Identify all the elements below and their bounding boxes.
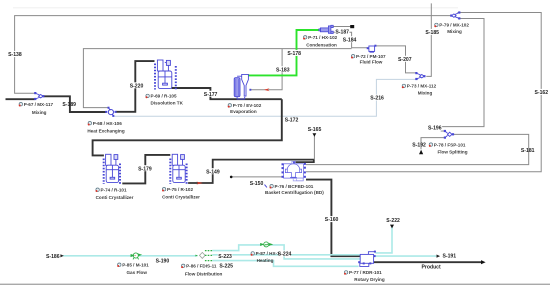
- crystallizer P-74 / R-101 icon: [104, 154, 120, 184]
- svg-text:Evaporation: Evaporation: [230, 109, 257, 114]
- wire S-196 P-79 bottom link: [441, 19, 484, 132]
- arrow S-191: [437, 255, 441, 258]
- label P-87 / HX-1: [251, 252, 254, 255]
- wire wash input: [313, 136, 315, 160]
- node S-149 label: [206, 168, 221, 174]
- svg-text:S-191: S-191: [443, 254, 457, 260]
- svg-text:P-71 / HX-102: P-71 / HX-102: [308, 35, 338, 40]
- arrow Product: [481, 260, 486, 264]
- label P-73 / MX-112: [402, 84, 405, 87]
- red arrow evaporator return: [264, 88, 270, 91]
- arrow S-187: [350, 25, 354, 28]
- svg-text:S-184: S-184: [343, 37, 357, 43]
- svg-text:S-183: S-183: [276, 67, 290, 73]
- svg-text:S-187: S-187: [335, 30, 349, 36]
- svg-text:Flow Splitting: Flow Splitting: [437, 149, 467, 154]
- wire S-138 top run: [15, 16, 451, 94]
- node S-220 label: [129, 82, 144, 88]
- wire S-181: [306, 134, 529, 164]
- wire lower cyan to dryer bottom: [212, 261, 358, 267]
- wire S-160: [306, 180, 361, 257]
- node S-223 label: [218, 253, 233, 259]
- label P-76 / BCFBD-101: [270, 185, 273, 188]
- svg-text:S-225: S-225: [219, 264, 233, 270]
- wire S-191 cyan: [375, 255, 436, 257]
- svg-text:Conti Crystallizer: Conti Crystallizer: [162, 194, 200, 199]
- label P-77 / RDR-101: [344, 271, 347, 274]
- svg-text:Gas Flow: Gas Flow: [126, 270, 147, 275]
- wire condensate return thin: [83, 49, 351, 108]
- node S-183 label: [276, 66, 291, 72]
- svg-text:S-220: S-220: [130, 83, 144, 89]
- wire S-179: [122, 155, 170, 184]
- label P-68 / HX-106: [88, 122, 91, 125]
- wire S-183 green: [248, 30, 319, 75]
- svg-text:P-78 / FSP-101: P-78 / FSP-101: [434, 142, 466, 147]
- wire S-187: [333, 26, 350, 28]
- node S-185 label: [425, 29, 440, 35]
- label P-86 / FDIS-11: [182, 264, 185, 267]
- svg-text:P-67 / MX-117: P-67 / MX-117: [24, 102, 54, 107]
- label P-75 / R-102: [162, 188, 165, 191]
- svg-text:S-172: S-172: [285, 118, 299, 124]
- svg-text:Basket Centrifugation (BD): Basket Centrifugation (BD): [265, 190, 324, 195]
- mixer P-73 MX-112 glyph: [416, 73, 424, 79]
- wire S-177: [172, 88, 282, 99]
- pump P-72 / PM-107 icon: [369, 46, 375, 52]
- svg-text:P-72 / PM-107: P-72 / PM-107: [356, 54, 386, 59]
- arrow S-192: [419, 150, 423, 155]
- svg-text:P-79 / MX-102: P-79 / MX-102: [439, 23, 469, 28]
- svg-text:P-69 / R-105: P-69 / R-105: [151, 94, 177, 99]
- svg-text:P-73 / MX-112: P-73 / MX-112: [407, 84, 437, 89]
- wire middle cyan to dryer: [212, 254, 359, 256]
- label P-85 / M-101: [118, 263, 121, 266]
- node S-184 label: [342, 36, 357, 42]
- svg-text:S-190: S-190: [156, 258, 170, 264]
- arrow into centrifuge top: [292, 161, 295, 164]
- label P-70 / EV-102: [228, 104, 231, 107]
- svg-text:P-86 / FDIS-11: P-86 / FDIS-11: [186, 264, 217, 269]
- svg-text:S-192: S-192: [412, 142, 426, 148]
- wire S-190 cyan: [139, 255, 198, 257]
- wire S-224 heater to dryer: [271, 245, 360, 259]
- bottom border strip: [0, 284, 550, 285]
- svg-text:S-222: S-222: [386, 218, 400, 224]
- wire S-216 light: [113, 79, 418, 116]
- svg-text:P-76 / BCFBD-101: P-76 / BCFBD-101: [275, 184, 314, 189]
- node S-196 label: [428, 125, 443, 131]
- node S-224 label: [278, 250, 291, 256]
- arrow wash input: [313, 133, 317, 137]
- wire S-172: [93, 99, 282, 155]
- svg-text:Fluid Flow: Fluid Flow: [360, 60, 383, 65]
- wire S-189: [43, 96, 106, 112]
- label P-74 / R-101: [96, 188, 99, 191]
- node S-162 label: [534, 89, 549, 95]
- label P-67 / MX-117: [19, 103, 22, 106]
- wire S-207: [376, 46, 418, 73]
- node S-207 label: [398, 56, 413, 62]
- svg-text:P-68 / HX-106: P-68 / HX-106: [93, 121, 123, 126]
- svg-text:Conti Crystallizer: Conti Crystallizer: [96, 195, 134, 200]
- node S-187 label: [335, 29, 350, 35]
- label P-72 / PM-107: [351, 55, 354, 58]
- node S-177 label: [203, 91, 218, 97]
- wire S-192: [421, 138, 445, 150]
- wire S-185: [426, 3, 431, 76]
- wire S-184: [333, 32, 368, 47]
- wire S-150: [231, 176, 282, 178]
- svg-text:Product: Product: [421, 265, 441, 271]
- heater P-87 / HX-1 icon: [261, 242, 272, 247]
- red arrow S-149: [196, 182, 202, 185]
- tank P-69 / R-105 dissolution tank icon: [155, 60, 176, 90]
- wire S-222 cyan: [375, 227, 392, 253]
- mixer P-67 MX-117 glyph: [35, 93, 43, 99]
- label P-78 / FSP-101: [429, 143, 432, 146]
- distributor P-86 / FDIS-11 icon: [200, 252, 206, 258]
- wire faint recycle top: [13, 7, 458, 9]
- svg-text:S-179: S-179: [138, 166, 152, 172]
- wire S-162 from P-79 to centrifuge: [306, 13, 541, 172]
- svg-text:S-149: S-149: [206, 169, 220, 175]
- wire S-186 cyan: [63, 255, 133, 257]
- svg-text:S-185: S-185: [425, 30, 439, 36]
- node S-178 label: [287, 50, 302, 56]
- svg-text:Dissolution TK: Dissolution TK: [150, 100, 183, 105]
- node S-179 label: [138, 165, 153, 171]
- label P-79 / MX-102: [435, 23, 438, 26]
- svg-text:S-223: S-223: [218, 254, 232, 260]
- svg-text:S-196: S-196: [428, 126, 442, 132]
- svg-text:P-77 / RDR-101: P-77 / RDR-101: [349, 270, 382, 275]
- svg-text:Condensation: Condensation: [306, 43, 337, 48]
- svg-text:P-87 / HX-1: P-87 / HX-1: [256, 251, 280, 256]
- svg-text:S-224: S-224: [278, 252, 292, 258]
- crystallizer P-75 / R-102 icon: [170, 154, 186, 184]
- node S-216 label: [370, 95, 385, 101]
- svg-text:S-150: S-150: [250, 181, 264, 187]
- svg-text:Flow Distribution: Flow Distribution: [185, 272, 223, 277]
- svg-text:S-189: S-189: [62, 102, 76, 108]
- wire S-149: [188, 160, 314, 183]
- svg-text:S-165: S-165: [308, 127, 322, 133]
- svg-text:P-74 / R-101: P-74 / R-101: [101, 187, 127, 192]
- svg-text:S-216: S-216: [370, 96, 384, 102]
- svg-text:Mixing: Mixing: [32, 110, 47, 115]
- wire S-220: [116, 61, 155, 112]
- wire evaporator return: [251, 49, 283, 90]
- svg-text:S-178: S-178: [287, 51, 301, 57]
- arrow S-222: [390, 225, 394, 229]
- svg-text:Mixing: Mixing: [418, 91, 433, 96]
- mixer P-79 MX-102 glyph: [452, 13, 460, 19]
- svg-text:P-75 / R-102: P-75 / R-102: [167, 187, 193, 192]
- svg-text:S-160: S-160: [325, 217, 339, 223]
- node S-138 label: [8, 51, 23, 57]
- label P-69 / R-105: [146, 94, 149, 97]
- svg-text:P-85 / M-101: P-85 / M-101: [122, 262, 149, 267]
- svg-text:S-181: S-181: [521, 148, 535, 154]
- dryer P-77 / RDR-101 icon: [360, 252, 375, 267]
- svg-text:S-186: S-186: [46, 254, 60, 260]
- svg-text:Mixing: Mixing: [447, 29, 462, 34]
- label P-71 / HX-102: [304, 36, 307, 39]
- svg-text:Heating: Heating: [257, 258, 274, 263]
- svg-text:Heat Exchanging: Heat Exchanging: [87, 128, 124, 133]
- splitter P-78 / FSP-101 glyph: [445, 131, 452, 138]
- condenser P-71 / HX-102 icon: [319, 25, 333, 33]
- evaporator P-70 / EV-102 icon: [234, 74, 248, 99]
- svg-text:Rotary Drying: Rotary Drying: [354, 277, 385, 282]
- node S-160 label: [324, 216, 339, 222]
- svg-text:P-70 / EV-102: P-70 / EV-102: [233, 103, 262, 108]
- heat-exchanger P-68 / HX-106 glyph: [108, 108, 113, 116]
- wire S-223 cyan to heater: [212, 245, 261, 251]
- compressor P-85 / M-101 gas flow icon: [131, 253, 141, 260]
- wire feed into P-67: [6, 98, 35, 100]
- svg-text:S-138: S-138: [8, 52, 22, 58]
- arrow S-186: [60, 254, 63, 257]
- centrifuge P-76 / BCFBD-101 icon: [284, 160, 304, 181]
- svg-text:S-162: S-162: [535, 90, 549, 96]
- svg-text:S-207: S-207: [398, 57, 412, 63]
- wire Product: [374, 261, 482, 263]
- svg-text:S-177: S-177: [204, 92, 218, 98]
